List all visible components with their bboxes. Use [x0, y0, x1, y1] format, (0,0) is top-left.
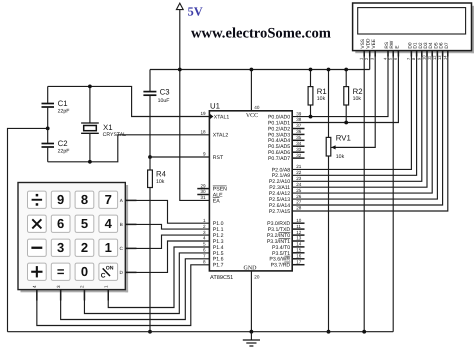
svg-text:ON: ON — [106, 266, 114, 272]
svg-text:24: 24 — [296, 182, 302, 187]
wire crystal top rail to XTAL1 — [48, 86, 210, 116]
svg-text:C1: C1 — [58, 99, 68, 108]
keypad button 4 — [99, 215, 118, 232]
LCD pin numbers 1-14 (rotated) — [359, 55, 448, 60]
junction dot R4 bottom on ground rail — [148, 330, 152, 334]
U1 P0.4 stub — [292, 139, 304, 141]
svg-text:29: 29 — [200, 183, 206, 188]
crystal X1 — [81, 86, 99, 161]
keypad button ON/C — [99, 263, 118, 280]
keypad button 7 — [99, 191, 118, 208]
LCD pin names VSS VDD VEE RS RW E D0-D7 (rotated) — [360, 38, 450, 49]
svg-text:VEE: VEE — [371, 39, 377, 49]
svg-text:23: 23 — [296, 176, 302, 181]
svg-text:34: 34 — [296, 141, 302, 146]
keypad button 5 — [75, 215, 94, 232]
svg-text:6: 6 — [57, 216, 64, 231]
svg-text:P1.7: P1.7 — [213, 263, 224, 269]
svg-text:XTAL2: XTAL2 — [213, 133, 229, 139]
junction dot R1 bottom on P0.0 wire — [309, 115, 313, 119]
U1 P0.3 stub — [292, 133, 304, 135]
svg-text:2: 2 — [203, 224, 206, 229]
svg-text:2: 2 — [80, 285, 85, 288]
svg-text:39: 39 — [296, 111, 302, 116]
LCD pin stubs — [364, 51, 448, 57]
IC U1 AT89C51 microcontroller body — [209, 111, 292, 271]
U1 P3.1 stub — [292, 228, 304, 230]
svg-text:10k: 10k — [317, 96, 326, 102]
wire LCD E to P0.1 — [292, 51, 398, 123]
keypad button 1 — [99, 239, 118, 256]
svg-text:C: C — [101, 273, 106, 280]
U1 pin 19 number and stub — [200, 111, 206, 116]
svg-text:E: E — [394, 45, 400, 48]
capacitor C3 — [143, 70, 156, 158]
svg-text:=: = — [57, 264, 65, 279]
svg-text:10k: 10k — [156, 179, 165, 185]
U1 P3.3/INT1 pin name — [267, 238, 290, 245]
svg-text:D5: D5 — [433, 42, 439, 48]
svg-text:X1: X1 — [103, 123, 113, 132]
keypad button 0 — [75, 263, 94, 280]
keypad row pin stubs — [125, 200, 136, 272]
svg-text:EA: EA — [213, 198, 220, 204]
svg-text:10k: 10k — [353, 96, 362, 102]
power symbol 5V arrow — [176, 3, 183, 9]
resistor R1 — [308, 70, 313, 117]
U1 P0.6 stub — [292, 151, 304, 153]
U1 P3.2 stub — [292, 234, 304, 236]
U1 P3.0/RXD pin name — [267, 221, 290, 227]
svg-text:25: 25 — [296, 188, 302, 193]
svg-text:30: 30 — [200, 189, 206, 194]
U1 P3.1/TXD pin name — [268, 227, 291, 233]
svg-text:RW: RW — [389, 40, 395, 48]
svg-text:AT89C51: AT89C51 — [210, 275, 233, 281]
keypad KEYPAD-CALC body — [18, 183, 125, 290]
keypad button 8 — [75, 191, 94, 208]
svg-text:3: 3 — [57, 240, 64, 255]
wire keypad row D to P1.3 — [125, 241, 209, 272]
wire crystal bottom rail to XTAL2 — [48, 135, 210, 162]
wire LCD D7 to P2.7 — [292, 51, 448, 212]
svg-text:16: 16 — [296, 254, 302, 259]
svg-text:10uF: 10uF — [158, 98, 170, 104]
svg-text:B: B — [120, 222, 123, 227]
svg-text:22pF: 22pF — [58, 109, 70, 115]
svg-text:9: 9 — [57, 192, 64, 207]
U1 P3.4/T0 pin name — [272, 245, 290, 251]
wire keypad row C to P1.2 — [125, 235, 209, 248]
wire LCD RW to ground rail — [392, 51, 394, 332]
svg-text:22pF: 22pF — [58, 149, 70, 155]
wire ground rail — [8, 331, 394, 333]
junction dot GND pin on ground rail — [250, 330, 254, 334]
svg-text:8: 8 — [203, 259, 206, 264]
wire keypad column 3 to P1.5 — [84, 253, 209, 314]
keypad button minus — [28, 239, 47, 256]
svg-text:GND: GND — [244, 265, 258, 271]
svg-text:18: 18 — [200, 130, 206, 135]
wire LCD VDD to VCC rail — [369, 51, 371, 70]
U1 PSEN pin name (overlined) — [213, 186, 227, 193]
svg-text:0: 0 — [81, 264, 88, 279]
U1 P3.6 stub — [292, 258, 304, 260]
junction dot 5V/VCC rail — [178, 68, 182, 72]
keypad button div — [28, 191, 47, 208]
svg-text:VCC: VCC — [246, 113, 258, 119]
wire VCC pin 40 to rail — [250, 70, 252, 111]
svg-text:21: 21 — [296, 164, 302, 169]
wire LCD D4 to P2.4 — [292, 51, 432, 194]
svg-text:D6: D6 — [439, 42, 445, 48]
svg-text:9: 9 — [203, 152, 206, 157]
svg-text:4: 4 — [105, 216, 113, 231]
junction dot crystal bottom — [88, 160, 92, 164]
U1 P3.2/INT0 pin name — [267, 232, 290, 239]
keypad button mul — [28, 215, 47, 232]
svg-text:17: 17 — [296, 259, 302, 264]
capacitor C2 — [42, 128, 55, 161]
junction dot RV1 bottom on ground rail — [327, 330, 331, 334]
svg-text:RST: RST — [213, 155, 224, 161]
svg-text:19: 19 — [200, 111, 206, 116]
svg-text:12: 12 — [296, 230, 302, 235]
svg-text:22: 22 — [296, 170, 302, 175]
svg-text:14: 14 — [296, 242, 302, 247]
wire VCC rail — [150, 69, 370, 71]
wire GND pin 20 to ground rail — [250, 271, 252, 332]
wire keypad row A to P1.0 — [125, 200, 209, 223]
svg-text:8: 8 — [81, 192, 88, 207]
junction dot C3/R4/RST node — [148, 155, 152, 159]
U1 P3.6/WR pin name — [269, 256, 290, 263]
svg-text:2: 2 — [81, 240, 88, 255]
U1 P3.7/RD pin name — [271, 262, 291, 269]
capacitor C1 — [42, 86, 55, 128]
U1 pin 29 number and stub — [197, 183, 209, 188]
ground symbol — [243, 332, 260, 346]
svg-text:D4: D4 — [428, 42, 434, 48]
svg-text:U1: U1 — [210, 102, 220, 111]
U1 P0.5 stub — [292, 145, 304, 147]
wire LCD D6 to P2.6 — [292, 51, 442, 206]
LCD LM016L body — [353, 3, 472, 51]
resistor R2 — [344, 70, 349, 123]
wire LCD VEE to RV1 wiper — [331, 51, 375, 148]
svg-text:D7: D7 — [444, 42, 450, 48]
svg-text:XTAL1: XTAL1 — [214, 114, 230, 120]
svg-text:7: 7 — [203, 254, 206, 259]
svg-text:RV1: RV1 — [336, 134, 351, 143]
svg-text:VSS: VSS — [360, 39, 366, 49]
keypad button 6 — [51, 215, 70, 232]
LCD display window — [358, 8, 466, 34]
keypad button plus — [28, 263, 47, 280]
junction dot R1 top on VCC rail — [309, 68, 313, 72]
U1 P0.2 stub — [292, 128, 304, 130]
svg-text:P3.7/RD: P3.7/RD — [271, 263, 291, 269]
wire keypad column 1 to P1.7 — [37, 265, 210, 326]
svg-text:40: 40 — [254, 105, 260, 110]
junction dot R2 top on VCC rail — [344, 68, 348, 72]
svg-text:33: 33 — [296, 147, 302, 152]
svg-text:13: 13 — [296, 236, 302, 241]
wire LCD D5 to P2.5 — [292, 51, 437, 200]
wire capacitor midpoint to left ground drop — [8, 128, 48, 331]
svg-text:1: 1 — [105, 240, 112, 255]
wire LCD D2 to P2.2 — [292, 51, 422, 182]
svg-text:www.electroSome.com: www.electroSome.com — [191, 25, 331, 41]
U1 P3.5/T1 pin name — [272, 251, 290, 257]
U1 EA pin name (overlined) — [213, 198, 220, 205]
svg-text:38: 38 — [296, 117, 302, 122]
svg-text:35: 35 — [296, 135, 302, 140]
junction dot R2 bottom on P0.1 wire — [344, 121, 348, 125]
svg-text:6: 6 — [203, 248, 206, 253]
svg-text:5: 5 — [81, 216, 88, 231]
svg-text:7: 7 — [105, 192, 112, 207]
svg-text:10k: 10k — [336, 154, 345, 160]
svg-text:10: 10 — [296, 218, 302, 223]
junction dot VCC pin on rail — [250, 68, 254, 72]
U1 P3.0 stub — [292, 222, 304, 224]
keypad button 2 — [75, 239, 94, 256]
keypad panel shadow — [125, 185, 128, 292]
wire LCD RS to P0.0 — [292, 51, 388, 117]
potentiometer RV1 — [326, 70, 375, 332]
U1 pin 30 number and stub — [197, 189, 209, 194]
keypad button eq — [51, 263, 70, 280]
wire keypad row B to P1.1 — [125, 224, 209, 229]
svg-text:36: 36 — [296, 129, 302, 134]
svg-text:D2: D2 — [418, 42, 424, 48]
svg-text:4: 4 — [203, 236, 206, 241]
svg-text:P2.7/A15: P2.7/A15 — [269, 209, 290, 215]
junction dot crystal top — [88, 85, 92, 89]
svg-text:11: 11 — [296, 224, 301, 229]
svg-text:5: 5 — [203, 242, 206, 247]
svg-text:28: 28 — [296, 206, 302, 211]
svg-text:RS: RS — [384, 42, 390, 49]
svg-text:4: 4 — [32, 285, 37, 288]
svg-text:R4: R4 — [156, 169, 167, 178]
U1 P3.4 stub — [292, 246, 304, 248]
svg-text:1: 1 — [103, 285, 108, 288]
svg-text:VDD: VDD — [366, 38, 372, 49]
svg-text:5V: 5V — [188, 4, 203, 18]
junction dot C1/C2 midpoint — [46, 126, 50, 130]
keypad column pin stubs — [37, 290, 108, 301]
wire keypad column 4 to P1.4 — [108, 247, 209, 308]
svg-text:15: 15 — [296, 248, 302, 253]
svg-text:20: 20 — [254, 274, 260, 279]
svg-text:D1: D1 — [413, 42, 419, 48]
wire LCD D1 to P2.1 — [292, 51, 416, 176]
svg-text:26: 26 — [296, 194, 302, 199]
svg-text:37: 37 — [296, 123, 302, 128]
svg-text:R2: R2 — [353, 87, 363, 96]
LCD shadow — [471, 6, 474, 53]
keypad button 3 — [51, 239, 70, 256]
svg-text:31: 31 — [200, 195, 206, 200]
U1 P0.7 stub — [292, 157, 304, 159]
U1 P3.7 stub — [292, 264, 304, 266]
wire LCD VSS to ground rail — [363, 51, 365, 332]
svg-text:C2: C2 — [58, 139, 68, 148]
svg-text:D3: D3 — [423, 42, 429, 48]
svg-text:C3: C3 — [160, 87, 170, 96]
keypad button 9 — [51, 191, 70, 208]
U1 XTAL1 pin name and clock mark — [210, 114, 230, 121]
U1 P3.3 stub — [292, 240, 304, 242]
svg-text:3: 3 — [203, 230, 206, 235]
wire keypad column 2 to P1.6 — [61, 259, 210, 320]
svg-text:32: 32 — [296, 153, 302, 158]
U1 P3.5 stub — [292, 252, 304, 254]
svg-text:1: 1 — [203, 218, 206, 223]
svg-text:27: 27 — [296, 200, 302, 205]
svg-text:R1: R1 — [317, 87, 327, 96]
wire LCD D3 to P2.3 — [292, 51, 427, 188]
wire 5V vertical to VCC rail and EA — [180, 10, 210, 201]
junction dot VSS on ground rail — [362, 330, 366, 334]
svg-text:D0: D0 — [407, 42, 413, 48]
resistor R4 — [148, 157, 153, 332]
wire RST to U1 — [150, 156, 209, 158]
svg-text:P0.7/AD7: P0.7/AD7 — [268, 156, 290, 162]
svg-text:3: 3 — [56, 285, 61, 288]
wire LCD D0 to P2.0 — [292, 51, 411, 170]
junction dot RV1 top on VCC rail — [327, 68, 331, 72]
